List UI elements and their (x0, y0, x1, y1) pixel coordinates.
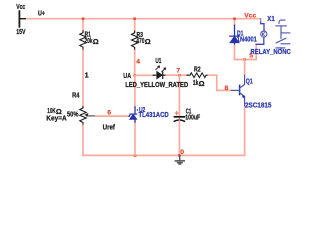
wire D1 anode down to node 5 row (235, 46, 257, 60)
svg-text:U+: U+ (38, 9, 45, 18)
svg-text:50%: 50% (67, 109, 79, 118)
wire top rail (27, 18, 261, 20)
svg-text:X1: X1 (267, 14, 274, 23)
svg-text:0: 0 (180, 149, 184, 156)
label K in relay coil (262, 32, 265, 36)
svg-text:TL431ACD: TL431ACD (139, 110, 170, 119)
wire bottom ground rail (83, 154, 245, 156)
svg-text:15V: 15V (16, 27, 25, 36)
svg-text:Vcc: Vcc (244, 13, 256, 20)
svg-text:UA: UA (123, 71, 131, 80)
plus sign of C1 (175, 112, 178, 115)
junction dot R1/top rail (82, 17, 85, 20)
wire node 7 down to C1 (178, 75, 180, 116)
svg-text:Key=A: Key=A (46, 113, 67, 122)
U2 pin tick marker (137, 109, 138, 111)
svg-text:R4: R4 (72, 91, 80, 100)
LED U1 (153, 72, 166, 79)
svg-text:1N4001: 1N4001 (237, 35, 257, 44)
svg-text:Vcc: Vcc (16, 2, 25, 11)
resistor R1 (80, 31, 86, 51)
wire R3 bottom to node 4 (134, 51, 136, 76)
svg-text:470: 470 (136, 36, 144, 45)
power source VCC 15V (19, 11, 26, 27)
svg-text:100uF: 100uF (185, 113, 200, 122)
node 5 junction dot (243, 58, 246, 61)
svg-text:Uref: Uref (103, 123, 116, 132)
resistor R2 (187, 73, 209, 78)
svg-text:Ω: Ω (93, 37, 99, 46)
junction dot U2 anode / rail (134, 154, 137, 157)
wire node 4 down to U2 cathode (134, 75, 136, 107)
wire R2 right, corner down, node 8 row to Q1 base (209, 75, 232, 90)
wire R4 wiper to U2 ref (node 6) (96, 115, 130, 117)
wire node 1 : R1 bottom to R4 top (82, 51, 84, 107)
wire LED cathode to node 7 (166, 74, 187, 76)
wire node 4 to LED anode (135, 74, 154, 76)
svg-text:Ω: Ω (145, 37, 151, 46)
capacitor C1 (174, 117, 184, 121)
relay X1 contact (276, 20, 290, 50)
wire D1 branch from top rail (234, 19, 236, 26)
svg-text:4: 4 (136, 59, 140, 66)
svg-text:U1: U1 (155, 56, 161, 65)
node 7 junction dot (178, 74, 181, 77)
resistor R3 (132, 31, 138, 51)
node 4 junction dot (133, 74, 136, 77)
relay X1 coil (256, 19, 267, 45)
wire R3 branch from top rail (134, 19, 136, 31)
wire node5 corner up to relay coil bottom (255, 44, 257, 59)
svg-text:R2: R2 (194, 64, 201, 73)
junction dot D1/top rail (233, 17, 236, 20)
shunt regulator U2 TL431ACD (129, 107, 137, 122)
svg-text:5: 5 (249, 53, 253, 60)
wire Q1 emitter down to ground rail (244, 107, 246, 155)
svg-text:Ω: Ω (199, 79, 205, 88)
svg-text:RELAY_NONC: RELAY_NONC (251, 47, 292, 56)
wire R4 bottom to ground rail (82, 126, 84, 156)
svg-text:6: 6 (107, 110, 111, 117)
diode D1 1N4001 (230, 25, 240, 45)
transistor Q1 2SC1815 (232, 75, 246, 107)
svg-text:LED_YELLOW_RATED: LED_YELLOW_RATED (125, 80, 189, 89)
wire R1 branch from top rail (82, 19, 84, 31)
svg-text:Q1: Q1 (246, 77, 253, 86)
ground (175, 155, 184, 164)
LED arrows (156, 66, 166, 72)
node 0 junction dot (178, 154, 181, 157)
svg-text:1: 1 (85, 71, 89, 80)
wire node 5 down to Q1 collector (244, 60, 246, 76)
wire C1 bottom to ground rail (178, 121, 180, 155)
svg-text:7: 7 (176, 68, 180, 75)
potentiometer R4 (80, 107, 96, 126)
svg-text:8: 8 (225, 85, 229, 92)
junction dot R3/top rail (133, 17, 136, 20)
svg-text:2SC1815: 2SC1815 (245, 100, 271, 109)
wire U2 anode to ground rail (134, 122, 136, 155)
